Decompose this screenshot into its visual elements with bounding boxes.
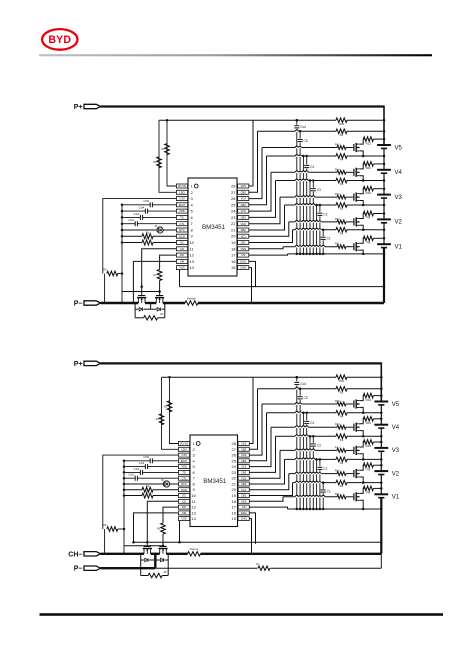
svg-text:C3: C3 <box>317 443 321 447</box>
svg-text:19: 19 <box>231 493 236 498</box>
svg-text:Rb1: Rb1 <box>335 493 340 496</box>
svg-text:VC3: VC3 <box>241 465 247 469</box>
svg-text:CS: CS <box>241 253 245 257</box>
svg-text:23: 23 <box>231 470 236 475</box>
svg-text:Rb4: Rb4 <box>335 168 340 171</box>
svg-text:R10: R10 <box>366 444 372 448</box>
svg-text:P+: P+ <box>74 361 83 368</box>
svg-text:VC5: VC5 <box>241 442 247 446</box>
svg-text:LDO: LDO <box>181 447 187 451</box>
svg-text:Rb2: Rb2 <box>335 218 340 221</box>
svg-text:R11: R11 <box>366 166 372 170</box>
svg-text:NTC: NTC <box>181 482 187 486</box>
svg-text:BYD: BYD <box>48 34 71 46</box>
svg-text:CB3: CB3 <box>241 216 247 220</box>
svg-text:26: 26 <box>231 453 236 458</box>
svg-text:BM3451: BM3451 <box>202 224 226 231</box>
svg-text:DO: DO <box>182 505 186 509</box>
svg-text:VC2: VC2 <box>241 476 247 480</box>
svg-text:C3: C3 <box>317 188 321 192</box>
svg-text:Rb3: Rb3 <box>335 446 340 449</box>
svg-text:CTL: CTL <box>181 476 187 480</box>
svg-text:27: 27 <box>231 447 236 452</box>
svg-text:V1: V1 <box>395 245 403 251</box>
svg-text:R8: R8 <box>366 241 370 245</box>
svg-text:R9: R9 <box>366 467 370 471</box>
svg-text:P−: P− <box>74 301 83 308</box>
svg-text:CB2: CB2 <box>241 482 247 486</box>
svg-text:VC4: VC4 <box>241 197 247 201</box>
svg-text:R3: R3 <box>340 438 344 442</box>
svg-text:LDO: LDO <box>179 190 185 194</box>
svg-text:P+: P+ <box>74 104 83 111</box>
svg-text:22: 22 <box>231 476 236 481</box>
svg-text:Cb3: Cb3 <box>134 467 140 471</box>
svg-text:V2: V2 <box>392 471 400 477</box>
svg-text:20: 20 <box>231 487 236 492</box>
svg-text:VD VD: VD VD <box>178 184 186 188</box>
svg-text:CS: CS <box>242 505 246 509</box>
svg-text:CTL: CTL <box>179 222 185 226</box>
svg-text:VDD: VDD <box>179 209 185 213</box>
svg-text:R4: R4 <box>340 158 344 162</box>
svg-text:Rb1: Rb1 <box>335 243 340 246</box>
svg-text:VC4: VC4 <box>241 453 247 457</box>
svg-text:18: 18 <box>231 246 236 251</box>
svg-text:C5: C5 <box>304 396 308 400</box>
svg-text:V1: V1 <box>392 495 400 501</box>
svg-text:Rvd: Rvd <box>339 122 344 126</box>
svg-text:R2: R2 <box>340 461 344 465</box>
svg-text:16: 16 <box>231 259 236 264</box>
svg-text:R12: R12 <box>366 398 372 402</box>
svg-text:CHG: CHG <box>240 266 246 270</box>
svg-text:BM3451: BM3451 <box>203 478 227 485</box>
svg-text:Cvd: Cvd <box>300 125 306 129</box>
svg-text:CB5: CB5 <box>241 447 247 451</box>
svg-text:24: 24 <box>231 464 236 469</box>
svg-text:Rt: Rt <box>155 225 158 228</box>
svg-text:Rb4: Rb4 <box>335 423 340 426</box>
svg-text:VSS: VSS <box>179 266 185 270</box>
svg-text:Rvd: Rvd <box>339 379 344 383</box>
svg-text:C4: C4 <box>310 165 314 169</box>
svg-text:R3: R3 <box>340 182 344 186</box>
svg-text:CB4: CB4 <box>241 203 247 207</box>
svg-text:15: 15 <box>231 265 236 270</box>
svg-text:27: 27 <box>231 190 236 195</box>
svg-text:18: 18 <box>231 499 236 504</box>
svg-text:VC1: VC1 <box>241 234 247 238</box>
svg-text:C4: C4 <box>310 421 314 425</box>
svg-text:CO: CO <box>180 247 184 251</box>
svg-text:Cb5: Cb5 <box>143 455 149 459</box>
svg-text:CB1: CB1 <box>241 241 247 245</box>
svg-text:25: 25 <box>231 202 236 207</box>
svg-text:V3: V3 <box>395 195 403 201</box>
svg-text:SC: SC <box>182 494 186 498</box>
svg-text:10: 10 <box>191 493 196 498</box>
svg-text:1 8V: 1 8V <box>181 453 187 457</box>
svg-text:Rb5: Rb5 <box>335 400 340 403</box>
svg-text:Rsense: Rsense <box>187 296 196 300</box>
svg-text:V5: V5 <box>395 145 403 151</box>
svg-text:VSS: VSS <box>181 517 187 521</box>
svg-text:Cb2: Cb2 <box>128 218 134 222</box>
svg-text:26: 26 <box>231 196 236 201</box>
svg-text:17: 17 <box>231 253 236 258</box>
svg-text:R5: R5 <box>340 390 344 394</box>
svg-text:VDD: VDD <box>181 465 187 469</box>
svg-text:R11: R11 <box>366 421 372 425</box>
svg-text:20: 20 <box>231 234 236 239</box>
svg-text:VC1: VC1 <box>241 488 247 492</box>
svg-text:R5: R5 <box>340 133 344 137</box>
svg-text:Cb4: Cb4 <box>139 461 145 465</box>
svg-text:CO: CO <box>182 499 186 503</box>
svg-text:R4: R4 <box>340 414 344 418</box>
svg-text:VD VD: VD VD <box>180 442 188 446</box>
svg-text:Cb4: Cb4 <box>139 206 145 210</box>
svg-text:24: 24 <box>231 209 236 214</box>
svg-text:CB1: CB1 <box>241 494 247 498</box>
svg-text:16: 16 <box>231 510 236 515</box>
svg-text:Cb5: Cb5 <box>143 199 149 203</box>
svg-text:VC3: VC3 <box>241 209 247 213</box>
svg-text:Cb3: Cb3 <box>134 212 140 216</box>
svg-text:12: 12 <box>191 505 196 510</box>
svg-text:R10: R10 <box>366 191 372 195</box>
svg-text:Rsense: Rsense <box>190 547 199 551</box>
svg-text:C2: C2 <box>323 213 327 217</box>
svg-text:DSG: DSG <box>240 260 246 264</box>
svg-text:TS: TS <box>180 216 184 220</box>
svg-text:C1: C1 <box>327 489 331 493</box>
svg-text:14: 14 <box>191 516 196 521</box>
svg-text:VC5: VC5 <box>241 184 247 188</box>
svg-text:Cb2: Cb2 <box>128 473 134 477</box>
svg-text:EN P: EN P <box>181 459 187 463</box>
svg-text:CB5: CB5 <box>241 190 247 194</box>
svg-text:22: 22 <box>231 221 236 226</box>
svg-text:DO: DO <box>180 253 184 257</box>
svg-text:V2: V2 <box>395 220 403 226</box>
svg-text:14: 14 <box>189 265 194 270</box>
svg-text:12: 12 <box>189 253 194 258</box>
svg-text:CHG: CHG <box>241 517 247 521</box>
svg-text:R9: R9 <box>366 216 370 220</box>
svg-text:R2: R2 <box>340 207 344 211</box>
svg-text:CB2: CB2 <box>241 228 247 232</box>
svg-text:17: 17 <box>231 505 236 510</box>
svg-text:Rb2: Rb2 <box>335 470 340 473</box>
svg-text:OCD: OCD <box>181 488 187 492</box>
svg-text:21: 21 <box>231 228 236 233</box>
svg-text:25: 25 <box>231 458 236 463</box>
svg-text:C5: C5 <box>304 139 308 143</box>
svg-text:Rb3: Rb3 <box>335 193 340 196</box>
svg-text:TS: TS <box>182 471 186 475</box>
svg-text:V4: V4 <box>392 425 400 431</box>
svg-text:VC2: VC2 <box>241 222 247 226</box>
svg-text:R1: R1 <box>340 484 344 488</box>
svg-text:R12: R12 <box>366 141 372 145</box>
svg-text:Rb5: Rb5 <box>335 144 340 147</box>
svg-text:CH−: CH− <box>68 551 82 558</box>
svg-text:C2: C2 <box>323 467 327 471</box>
svg-text:OCD: OCD <box>179 234 185 238</box>
svg-text:28: 28 <box>231 184 236 189</box>
svg-text:28: 28 <box>231 441 236 446</box>
svg-text:19: 19 <box>231 240 236 245</box>
svg-text:CB4: CB4 <box>241 459 247 463</box>
svg-text:VSS: VSS <box>241 499 247 503</box>
svg-text:Cvd: Cvd <box>300 382 306 386</box>
svg-text:DSG: DSG <box>241 511 247 515</box>
svg-text:P−: P− <box>74 566 83 573</box>
svg-text:10: 10 <box>189 240 194 245</box>
svg-text:Rt: Rt <box>161 479 164 482</box>
svg-text:R1: R1 <box>340 231 344 235</box>
svg-text:EN P: EN P <box>179 203 185 207</box>
svg-text:23: 23 <box>231 215 236 220</box>
svg-text:1 8V: 1 8V <box>179 197 185 201</box>
svg-text:R8: R8 <box>366 491 370 495</box>
svg-text:13: 13 <box>189 259 194 264</box>
svg-text:CB3: CB3 <box>241 471 247 475</box>
svg-text:15: 15 <box>231 516 236 521</box>
svg-text:13: 13 <box>191 510 196 515</box>
svg-text:NTC: NTC <box>179 228 185 232</box>
svg-text:SC: SC <box>180 241 184 245</box>
svg-text:C1: C1 <box>327 237 331 241</box>
svg-text:V3: V3 <box>392 448 400 454</box>
svg-text:V5: V5 <box>392 402 400 408</box>
svg-text:V4: V4 <box>395 170 403 176</box>
svg-text:21: 21 <box>231 482 236 487</box>
svg-text:VSS: VSS <box>241 247 247 251</box>
